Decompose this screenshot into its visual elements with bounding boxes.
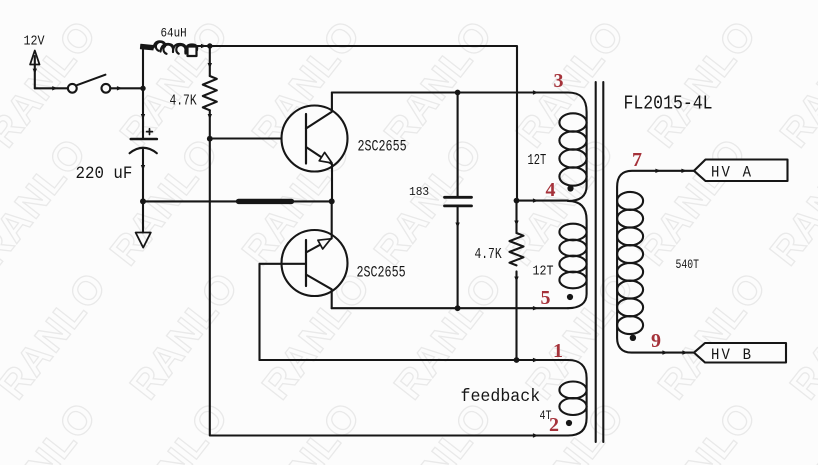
- wire node 4: [517, 198, 569, 202]
- dot node 9: [630, 335, 636, 341]
- node H junction (R2 top / node 4 wire): [514, 198, 520, 204]
- ground: [136, 201, 151, 247]
- HV B flag: [694, 343, 786, 363]
- node I junction (R2 bottom): [514, 357, 520, 363]
- dot node 2: [566, 420, 572, 426]
- ticks node 9 wire: [662, 350, 688, 354]
- svg-text:12T: 12T: [533, 263, 554, 279]
- svg-text:2SC2655: 2SC2655: [358, 139, 407, 156]
- node A junction: [140, 86, 145, 91]
- svg-text:RANLO: RANLO: [762, 130, 818, 273]
- svg-text:540T: 540T: [676, 258, 700, 273]
- wire switch to node A: [110, 86, 143, 90]
- resistor R2 4.7K: [510, 201, 524, 360]
- svg-text:12T: 12T: [528, 151, 547, 168]
- svg-text:RANLO: RANLO: [0, 394, 105, 465]
- svg-text:64uH: 64uH: [161, 26, 187, 41]
- wire base-node to bottom rail: [210, 139, 568, 436]
- svg-text:HV A: HV A: [711, 163, 752, 182]
- wire Q1 collector to node 3: [332, 90, 568, 94]
- thick jumper bar: [239, 199, 292, 204]
- resistor R1 4.7K: [203, 46, 217, 139]
- wire node A vertical: [141, 47, 145, 140]
- svg-text:4.7K: 4.7K: [170, 92, 197, 109]
- top rail wire to transformer column: [210, 46, 517, 201]
- svg-text:183: 183: [409, 186, 429, 199]
- capacitor C1 220uF: [130, 129, 157, 154]
- svg-text:RANLO: RANLO: [376, 12, 501, 155]
- svg-text:4: 4: [546, 179, 556, 201]
- node G junction (C2 bottom): [455, 305, 461, 311]
- svg-text:RANLO: RANLO: [782, 264, 818, 407]
- switch S1: [68, 75, 110, 93]
- wire Q2 base route: [260, 264, 307, 360]
- svg-text:5: 5: [541, 287, 551, 309]
- node E junction (emitters): [329, 198, 335, 204]
- transformer T1 secondary winding 7-9: [617, 171, 694, 353]
- svg-text:RANLO: RANLO: [244, 394, 369, 465]
- node F junction (C2 top): [455, 90, 461, 96]
- svg-text:RANLO: RANLO: [112, 394, 237, 465]
- svg-text:FL2015-4L: FL2015-4L: [624, 94, 713, 115]
- wire C1 to ground node: [141, 150, 145, 202]
- dot node 5: [567, 294, 573, 300]
- svg-text:3: 3: [554, 70, 564, 92]
- wire 12V to switch: [35, 86, 68, 90]
- svg-text:RANLO: RANLO: [0, 12, 105, 155]
- svg-text:RANLO: RANLO: [508, 12, 633, 155]
- svg-text:RANLO: RANLO: [122, 264, 247, 407]
- svg-text:4.7K: 4.7K: [475, 246, 502, 263]
- wire Q1 base: [210, 137, 306, 139]
- emitter rail wire: [143, 200, 332, 202]
- svg-text:RANLO: RANLO: [0, 264, 115, 407]
- svg-text:feedback: feedback: [461, 388, 541, 407]
- node B junction: [140, 198, 146, 204]
- svg-text:RANLO: RANLO: [772, 394, 818, 465]
- transistor Q2: [282, 201, 348, 308]
- transistor Q1: [282, 93, 348, 202]
- node C junction (top of R1): [207, 43, 212, 48]
- svg-text:RANLO: RANLO: [630, 130, 755, 273]
- svg-text:2SC2655: 2SC2655: [357, 265, 406, 282]
- transformer T1 feedback winding 1-2: [559, 360, 586, 436]
- ticks node 7 wire: [655, 169, 687, 173]
- node D junction (Q1 base): [207, 136, 213, 142]
- svg-text:1: 1: [553, 340, 563, 362]
- wire node 1 (feedback top): [260, 358, 569, 362]
- inductor L1 64uH: [140, 41, 209, 56]
- svg-text:RANLO: RANLO: [772, 12, 818, 155]
- transformer core: [596, 82, 604, 442]
- HV A flag: [694, 160, 788, 182]
- capacitor C2 183: [445, 93, 472, 309]
- svg-text:RANLO: RANLO: [650, 264, 775, 407]
- wire node 5 (Q2 collector rail): [332, 306, 568, 310]
- transformer T1 primary winding 3-4: [559, 93, 586, 202]
- svg-text:7: 7: [632, 149, 642, 171]
- svg-text:220 uF: 220 uF: [76, 163, 133, 183]
- dot node 4: [567, 185, 573, 191]
- svg-text:RANLO: RANLO: [386, 264, 511, 407]
- svg-text:9: 9: [651, 330, 661, 352]
- transformer T1 primary winding 4-5: [559, 201, 586, 308]
- svg-text:RANLO: RANLO: [640, 394, 765, 465]
- svg-text:RANLO: RANLO: [640, 12, 765, 155]
- 12V supply arrow: [30, 51, 39, 89]
- svg-text:2: 2: [549, 414, 559, 436]
- svg-text:12V: 12V: [24, 34, 45, 49]
